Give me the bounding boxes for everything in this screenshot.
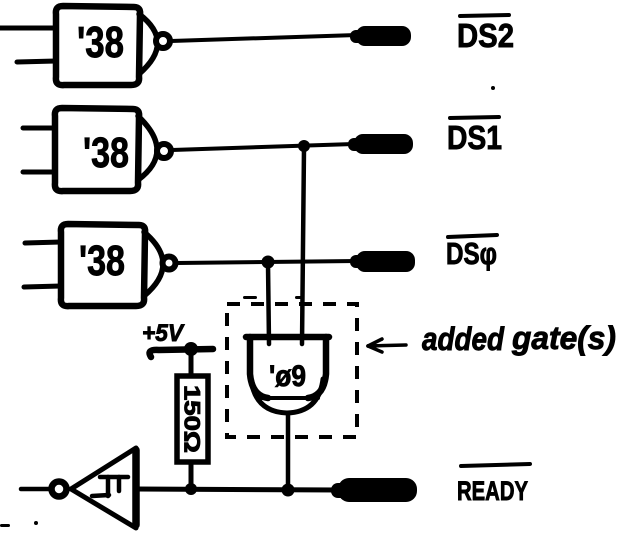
READY terminal bar xyxy=(331,478,417,502)
U1 output bubble xyxy=(156,34,170,48)
READY wire xyxy=(136,489,340,490)
wire U3 output to DS0 terminal xyxy=(177,261,357,263)
label READY with overline xyxy=(457,464,530,506)
junction node R1/READY xyxy=(185,483,197,495)
svg-text:'38: '38 xyxy=(79,237,125,285)
junction node DS1 vertical tap xyxy=(298,140,310,152)
annotation text added gate(s) xyxy=(422,320,616,357)
inverter U5 triangle xyxy=(71,448,136,528)
svg-text:+5V: +5V xyxy=(142,320,185,347)
wire DS1 junction down to U4 input xyxy=(302,148,304,344)
svg-text:DS1: DS1 xyxy=(447,119,502,156)
svg-text:added: added xyxy=(422,321,505,357)
label DS1 with overline xyxy=(447,117,502,156)
label DS-phi with overline xyxy=(446,235,497,271)
DS1 terminal bar xyxy=(348,134,413,154)
inverter U5 bubble xyxy=(52,482,67,497)
+5V power rail xyxy=(150,349,213,357)
svg-text:150Ω: 150Ω xyxy=(180,385,205,453)
svg-text:DS2: DS2 xyxy=(457,17,514,54)
DS0 terminal bar xyxy=(350,251,415,272)
nand gate U3 ('38) body xyxy=(61,224,163,306)
U1 input wire 1 xyxy=(0,26,56,31)
junction node rail/resistor xyxy=(184,342,198,356)
nand gate U2 ('38) body xyxy=(55,108,157,191)
wire U4 output down to READY node xyxy=(286,413,291,489)
nand gate U1 ('38) body xyxy=(56,6,158,85)
annotation arrow xyxy=(368,339,406,352)
label DS2 with overline xyxy=(457,15,514,54)
wire rail to resistor R1 xyxy=(189,352,194,377)
svg-text:'38: '38 xyxy=(83,129,129,177)
DS2 terminal bar xyxy=(350,26,411,46)
svg-text:'ø9: 'ø9 xyxy=(269,360,306,393)
dashed box added-gate region xyxy=(227,304,357,437)
wire U1 output to DS2 terminal xyxy=(171,35,357,41)
resistor R1 body xyxy=(177,376,208,462)
U2 input wire 1 xyxy=(23,126,55,131)
junction node DS0 vertical tap xyxy=(262,256,275,269)
U3 input wire 1 xyxy=(25,242,61,243)
svg-text:READY: READY xyxy=(457,476,528,506)
U2 output bubble xyxy=(157,144,171,158)
U3 input wire 2 xyxy=(24,286,61,287)
wire DS0 junction down to U4 input xyxy=(268,264,269,344)
svg-text:gate(s): gate(s) xyxy=(511,320,616,356)
U5 hysteresis symbol xyxy=(92,477,128,496)
svg-text:DSφ: DSφ xyxy=(446,236,497,271)
inverter U5 input stub wire xyxy=(21,487,49,492)
and gate U4 ('09) body xyxy=(246,337,329,413)
U2 input wire 2 xyxy=(23,170,55,175)
junction node U4 output/READY xyxy=(282,484,295,497)
U1 input wire 2 xyxy=(17,61,56,62)
wire R1 to READY wire xyxy=(189,462,194,488)
svg-text:'38: '38 xyxy=(77,18,124,67)
U3 output bubble xyxy=(163,257,176,270)
wire U2 output to DS1 terminal xyxy=(172,144,354,150)
